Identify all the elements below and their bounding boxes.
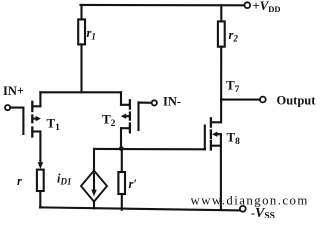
svg-text:r1: r1 (87, 26, 96, 42)
svg-text:iD1: iD1 (57, 172, 71, 187)
wire T2 gate lead (139, 102, 152, 104)
wire iD1 top lead (93, 149, 95, 171)
wire IN+ lead (10, 108, 23, 134)
transistor T8 (211, 118, 221, 149)
junction dot (119, 146, 124, 151)
svg-text:T2: T2 (102, 112, 116, 130)
svg-text:r2: r2 (229, 28, 239, 44)
resistor r2 (218, 21, 225, 46)
wire top rail (81, 4, 245, 7)
terminal IN+ (5, 105, 10, 110)
wire T8 source down (220, 134, 222, 210)
resistor r (37, 170, 44, 191)
svg-text:IN-: IN- (163, 95, 181, 109)
svg-text:-VSS: -VSS (251, 206, 275, 218)
resistor r-prime (118, 172, 125, 194)
wire bottom rail (40, 207, 240, 210)
svg-text:+VDD: +VDD (253, 0, 281, 14)
wire r-prime top lead (121, 149, 123, 172)
terminal -VSS (240, 206, 246, 212)
terminal Output (260, 97, 266, 103)
transistor T1 (32, 102, 41, 137)
svg-text:www.diangon.com: www.diangon.com (191, 194, 309, 208)
svg-text:r′: r′ (129, 177, 137, 191)
wire r1 bottom lead (80, 44, 82, 92)
terminal +VDD (244, 2, 250, 8)
wire tail rail (common source node) (94, 148, 205, 151)
wire drain rail T1-T2 (40, 91, 121, 93)
svg-text:IN+: IN+ (3, 84, 24, 98)
svg-text:Output: Output (277, 93, 317, 107)
wire r-prime bottom lead (121, 194, 123, 210)
resistor r1 (78, 19, 85, 44)
wire T8 gate bar (204, 126, 206, 150)
wire r2 top lead (220, 5, 222, 21)
current source iD1 (81, 171, 107, 202)
wire output lead (221, 99, 259, 101)
svg-text:T7: T7 (226, 78, 240, 96)
wire r1 top lead (80, 5, 82, 20)
wire T1 source down with current arrow (39, 132, 41, 164)
svg-text:r: r (17, 174, 22, 188)
wire iD1 bottom lead (93, 202, 95, 209)
wire T2 gate bar (137, 102, 139, 130)
wire T2 source down (120, 128, 122, 148)
wire r bottom lead (39, 191, 42, 207)
wire T2 drain up (120, 92, 122, 105)
transistor T2 (121, 100, 130, 132)
terminal IN- (152, 100, 157, 105)
wire right column r2 to T8 drain (220, 47, 222, 123)
svg-text:T8: T8 (227, 130, 241, 148)
svg-text:T1: T1 (47, 116, 61, 134)
wire T1 drain up (39, 92, 41, 106)
